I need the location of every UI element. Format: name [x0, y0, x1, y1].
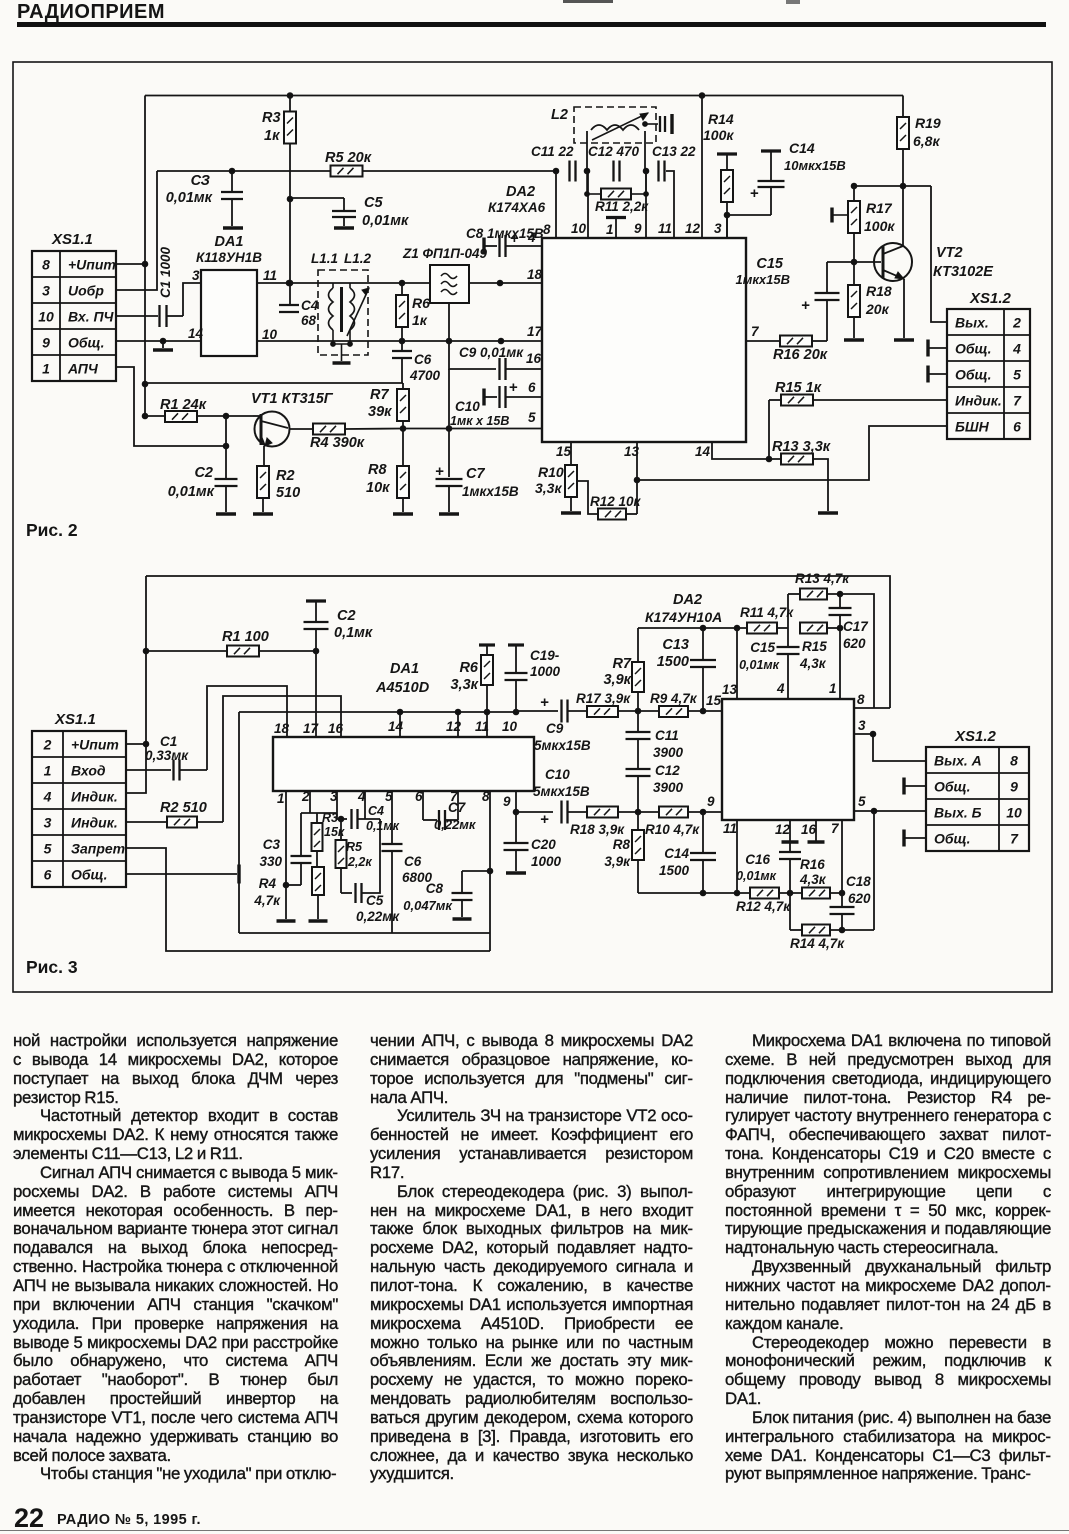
svg-text:L1.2: L1.2: [344, 251, 372, 266]
wire left supply vertical: [126, 576, 146, 793]
wire pin 1: [615, 219, 617, 238]
svg-text:68: 68: [301, 313, 317, 328]
Рис.3 top rail: [146, 576, 890, 708]
svg-text:R12 10к: R12 10к: [590, 494, 642, 509]
svg-text:12: 12: [446, 719, 462, 734]
svg-text:10: 10: [38, 309, 54, 325]
svg-text:3: 3: [858, 718, 866, 733]
svg-text:10: 10: [262, 327, 278, 342]
svg-text:+Uпит: +Uпит: [71, 737, 119, 753]
svg-text:14: 14: [695, 444, 711, 459]
wire +Uпит vertical: [144, 96, 146, 417]
ground near pin 14: [116, 340, 201, 342]
svg-text:Индик.: Индик.: [955, 393, 1002, 409]
capacitor C15: [826, 262, 828, 292]
svg-text:С12 470: С12 470: [588, 144, 640, 159]
resistor R16: [746, 340, 780, 342]
svg-text:С19-: С19-: [530, 648, 560, 663]
svg-text:1: 1: [44, 763, 52, 779]
resistor R1: [145, 415, 165, 417]
svg-text:14: 14: [188, 326, 204, 341]
svg-text:Вход: Вход: [71, 763, 106, 779]
svg-text:R5: R5: [346, 840, 363, 854]
common stub Общ 4: [926, 340, 929, 357]
svg-text:XS1.2: XS1.2: [969, 290, 1012, 307]
svg-text:10мкх15В: 10мкх15В: [784, 158, 846, 173]
wire pin 11 fig3: [736, 820, 738, 893]
svg-text:С5: С5: [366, 893, 384, 908]
svg-text:8: 8: [42, 257, 50, 273]
svg-text:С12: С12: [655, 763, 680, 778]
resistor R14: [717, 152, 737, 155]
svg-text:1000: 1000: [530, 664, 561, 679]
svg-text:Z1 ФП1П-049: Z1 ФП1П-049: [402, 246, 487, 261]
svg-text:БШН: БШН: [955, 419, 990, 435]
ground pin 16 fig3: [815, 820, 817, 841]
resistor R7: [402, 383, 404, 390]
svg-text:1мк х 15В: 1мк х 15В: [450, 414, 509, 428]
svg-text:С2: С2: [194, 465, 213, 481]
svg-text:С8: С8: [426, 881, 444, 896]
svg-text:0,01мк: 0,01мк: [736, 869, 777, 883]
svg-text:Общ.: Общ.: [68, 335, 105, 351]
svg-text:С8 1мкх15В: С8 1мкх15В: [466, 226, 544, 241]
svg-text:С16: С16: [745, 852, 770, 867]
svg-text:14: 14: [388, 719, 404, 734]
svg-text:0,047мк: 0,047мк: [403, 898, 453, 913]
common stub Общ 7 fig3: [902, 830, 905, 847]
svg-text:8: 8: [543, 222, 551, 237]
connector XS1.1: [32, 731, 126, 887]
resistor R15: [769, 399, 781, 401]
svg-text:СЗ: СЗ: [191, 173, 210, 189]
svg-text:Вых.: Вых.: [955, 315, 989, 331]
svg-text:100к: 100к: [703, 127, 734, 143]
svg-text:18: 18: [274, 721, 290, 736]
wire pin 3: [726, 215, 728, 238]
resistor R15 fig3: [800, 623, 827, 634]
svg-text:2: 2: [1012, 315, 1021, 331]
svg-text:12: 12: [685, 221, 701, 236]
svg-text:330: 330: [259, 854, 282, 869]
svg-text:С13: С13: [662, 637, 689, 653]
svg-text:Общ.: Общ.: [955, 367, 992, 383]
svg-text:С7: С7: [448, 800, 467, 815]
wire pin 1 fig3: [839, 628, 841, 699]
svg-text:11: 11: [723, 821, 737, 836]
svg-text:Индик.: Индик.: [71, 789, 118, 805]
svg-text:11: 11: [475, 719, 489, 734]
svg-text:С11: С11: [655, 728, 679, 743]
svg-text:3: 3: [330, 789, 338, 804]
svg-text:1мкх15В: 1мкх15В: [735, 272, 790, 287]
capacitor C5: [290, 197, 344, 199]
svg-text:DA2: DA2: [506, 184, 535, 200]
svg-text:С15: С15: [756, 256, 784, 272]
svg-text:R11 2,2к: R11 2,2к: [595, 199, 649, 214]
svg-text:2,2к: 2,2к: [347, 855, 372, 869]
svg-text:R5 20к: R5 20к: [325, 150, 372, 166]
svg-text:R19: R19: [915, 115, 941, 131]
svg-text:С4: С4: [368, 804, 384, 818]
common stub Общ 5: [926, 366, 929, 383]
svg-text:КТ3102Е: КТ3102Е: [933, 264, 994, 280]
svg-text:С15: С15: [750, 640, 775, 655]
svg-text:R1 24к: R1 24к: [160, 397, 207, 413]
svg-text:15: 15: [556, 444, 572, 459]
svg-text:3: 3: [42, 283, 50, 299]
svg-text:R7: R7: [612, 656, 631, 672]
supply rail pins 14 12 11 10: [239, 711, 516, 713]
svg-text:+Uпит: +Uпит: [68, 257, 116, 273]
svg-text:Вх. ПЧ: Вх. ПЧ: [68, 309, 115, 325]
svg-text:С3: С3: [263, 837, 281, 852]
svg-text:R11 4,7к: R11 4,7к: [740, 605, 794, 620]
resistor R2 fig3: [126, 821, 167, 823]
svg-text:С18: С18: [846, 874, 871, 889]
svg-text:0,01мк: 0,01мк: [166, 190, 213, 206]
svg-text:С14: С14: [789, 140, 815, 156]
svg-text:6,8к: 6,8к: [913, 133, 940, 149]
wire pin 17 fig3: [315, 651, 317, 737]
svg-text:4: 4: [357, 789, 366, 804]
svg-text:3,9к: 3,9к: [603, 672, 631, 688]
wire pin 16 fig3: [223, 696, 341, 822]
svg-text:20к: 20к: [865, 301, 890, 317]
capacitor C13 fig3: [702, 628, 704, 659]
svg-text:L1.1: L1.1: [311, 251, 338, 266]
svg-text:7: 7: [751, 324, 760, 339]
svg-text:Вых. Б: Вых. Б: [934, 805, 982, 821]
wire Запрет fig3: [126, 848, 490, 951]
svg-text:R2: R2: [276, 468, 295, 484]
common stub Общ fig3: [126, 873, 237, 875]
svg-text:10: 10: [1006, 805, 1022, 821]
svg-text:16: 16: [526, 351, 542, 366]
svg-text:С11 22: С11 22: [531, 144, 574, 159]
capacitor C10: [482, 389, 485, 406]
svg-text:18: 18: [527, 267, 543, 282]
svg-text:3,3к: 3,3к: [535, 480, 562, 496]
svg-text:R16 20к: R16 20к: [773, 347, 828, 363]
svg-text:XS1.1: XS1.1: [54, 711, 96, 728]
svg-text:С7: С7: [466, 466, 485, 482]
svg-text:9: 9: [42, 335, 50, 351]
capacitor C15 fig3: [787, 628, 789, 646]
wire pin 7 fig3: [841, 820, 843, 893]
capacitors C11 C12 fig3: [637, 711, 639, 731]
svg-text:Вых. А: Вых. А: [934, 753, 982, 769]
svg-text:R3: R3: [262, 110, 281, 126]
svg-text:11: 11: [658, 221, 672, 236]
svg-text:39к: 39к: [368, 404, 392, 420]
resistor R13: [712, 442, 781, 459]
svg-text:R6: R6: [459, 660, 478, 676]
svg-text:С14: С14: [664, 846, 689, 861]
svg-text:100к: 100к: [864, 218, 895, 234]
svg-text:9: 9: [1010, 779, 1018, 795]
capacitor C2: [225, 446, 227, 479]
svg-text:+: +: [750, 185, 759, 202]
svg-text:0,1мк: 0,1мк: [366, 819, 400, 833]
svg-text:Рис. 3: Рис. 3: [26, 957, 78, 977]
IC DA2 К174ХА6: [542, 238, 746, 442]
svg-text:+: +: [540, 811, 549, 828]
svg-text:4,7к: 4,7к: [253, 893, 281, 908]
svg-text:1: 1: [277, 791, 285, 806]
svg-text:6: 6: [44, 867, 52, 883]
wire +Uпит row: [116, 263, 145, 265]
IC DA1 A4510D: [273, 737, 534, 791]
svg-text:1000: 1000: [531, 854, 562, 869]
svg-text:Общ.: Общ.: [934, 779, 971, 795]
resistor R6 fig3: [479, 643, 495, 646]
svg-text:R8: R8: [368, 462, 387, 478]
svg-text:3900: 3900: [653, 780, 684, 795]
svg-text:0,01мк: 0,01мк: [362, 213, 409, 229]
svg-text:1: 1: [606, 222, 614, 237]
wire reference rail: [157, 170, 556, 172]
svg-text:R6: R6: [412, 295, 430, 311]
svg-text:R4: R4: [259, 876, 277, 891]
svg-text:4,3к: 4,3к: [799, 872, 827, 887]
resistor R11 fig3: [747, 623, 777, 634]
svg-text:VT1 КТ315Г: VT1 КТ315Г: [251, 391, 334, 407]
svg-text:Uобр: Uобр: [68, 283, 104, 299]
svg-text:VT2: VT2: [936, 245, 963, 261]
svg-text:4: 4: [43, 789, 52, 805]
svg-text:5: 5: [385, 789, 393, 804]
svg-text:620: 620: [843, 636, 866, 651]
svg-text:1: 1: [829, 681, 837, 696]
svg-text:9: 9: [707, 794, 715, 809]
resistor R11: [586, 171, 588, 194]
svg-text:+: +: [509, 379, 518, 396]
svg-text:С6: С6: [414, 352, 432, 367]
wire pin 8 fig3: [854, 707, 890, 709]
svg-text:R18 3,9к: R18 3,9к: [570, 822, 625, 837]
svg-text:R7: R7: [370, 387, 389, 403]
svg-text:0,01мк: 0,01мк: [739, 658, 780, 672]
svg-text:АПЧ: АПЧ: [67, 361, 99, 377]
schematic frame: [13, 62, 1052, 992]
svg-text:11: 11: [263, 268, 277, 283]
svg-text:16: 16: [801, 822, 817, 837]
svg-text:R15: R15: [802, 639, 827, 654]
resistor R2: [263, 446, 265, 466]
wire detector output: [403, 428, 542, 430]
svg-text:7: 7: [1010, 831, 1019, 847]
svg-text:С1 1000: С1 1000: [158, 246, 173, 298]
trimmer cap near L2: [643, 122, 648, 127]
svg-text:R10: R10: [538, 464, 564, 480]
svg-text:L2: L2: [551, 107, 568, 123]
svg-text:8: 8: [482, 789, 490, 804]
capacitor C1 fig3: [126, 769, 171, 771]
svg-text:DA1: DA1: [390, 661, 419, 677]
svg-text:10: 10: [571, 221, 587, 236]
svg-text:С13 22: С13 22: [652, 144, 696, 159]
svg-text:6: 6: [528, 380, 536, 395]
wire pin 9 chain fig3: [515, 791, 517, 812]
ground pin 12 fig3: [789, 820, 791, 841]
resistor R1 fig3: [146, 650, 228, 652]
connector XS1.2: [947, 309, 1030, 439]
svg-text:R10 4,7к: R10 4,7к: [645, 822, 700, 837]
capacitor C6: [401, 341, 403, 351]
quartz filter Z1 ФП1П-049: [430, 265, 469, 303]
svg-text:С5: С5: [364, 195, 383, 211]
resistor R6: [401, 283, 403, 294]
Рис.2 top supply rail: [145, 95, 903, 97]
resistor R3: [289, 96, 291, 306]
svg-text:2: 2: [301, 789, 310, 804]
wire pin 11: [666, 171, 674, 238]
svg-text:1к: 1к: [412, 312, 428, 328]
svg-text:A4510D: A4510D: [375, 680, 430, 696]
capacitor C11: [568, 161, 570, 182]
svg-text:С17: С17: [843, 619, 869, 634]
resistor R8: [402, 429, 404, 468]
connector XS1.1: [32, 251, 116, 381]
svg-text:+: +: [540, 694, 549, 711]
svg-text:Общ.: Общ.: [71, 867, 108, 883]
wire pin 9: [645, 171, 647, 238]
svg-text:4700: 4700: [409, 368, 441, 383]
svg-text:R1 100: R1 100: [222, 629, 269, 645]
wire pin 10: [587, 171, 589, 238]
svg-text:R13 4,7к: R13 4,7к: [795, 571, 850, 586]
svg-text:16: 16: [328, 721, 344, 736]
svg-text:9: 9: [634, 221, 642, 236]
IC DA2 К174УН10А: [722, 699, 854, 820]
resistor R18 fig3: [587, 807, 618, 818]
svg-text:510: 510: [276, 485, 300, 501]
svg-text:5мкх15В: 5мкх15В: [534, 738, 591, 753]
svg-text:1: 1: [42, 361, 50, 377]
resistor R19: [902, 96, 904, 118]
svg-text:17: 17: [303, 721, 320, 736]
svg-text:С10: С10: [545, 767, 570, 782]
wire IF rail pin 17: [257, 340, 542, 342]
svg-text:R13 3,3к: R13 3,3к: [772, 439, 831, 455]
wire +Uпит fig3: [126, 743, 146, 745]
svg-text:Запрет: Запрет: [71, 841, 125, 857]
svg-text:DA2: DA2: [673, 592, 702, 608]
svg-text:5: 5: [44, 841, 52, 857]
wire pin 3 fig3: [854, 734, 926, 761]
wire pin 12: [701, 96, 703, 239]
resistor R14 fig3: [789, 893, 791, 930]
svg-text:2: 2: [43, 737, 52, 753]
svg-text:13: 13: [624, 444, 640, 459]
svg-text:R9 4,7к: R9 4,7к: [650, 691, 698, 706]
svg-text:8: 8: [1010, 753, 1018, 769]
svg-text:3: 3: [714, 221, 722, 236]
svg-text:7: 7: [1013, 393, 1022, 409]
svg-text:R12 4,7к: R12 4,7к: [736, 899, 791, 914]
svg-text:С1: С1: [160, 734, 177, 749]
resistor R16 fig3: [802, 888, 830, 899]
resistor R13 fig3: [787, 594, 789, 628]
svg-text:R17: R17: [866, 200, 893, 216]
resistor R10: [570, 442, 572, 466]
svg-text:С20: С20: [531, 837, 556, 852]
capacitor C3: [231, 171, 233, 192]
svg-text:С10: С10: [455, 399, 480, 414]
capacitor C2 fig3: [306, 599, 326, 602]
svg-text:3: 3: [44, 815, 52, 831]
resistor R17 fig3: [587, 706, 618, 717]
wire pin 13 fig3: [736, 628, 738, 699]
svg-text:4: 4: [1012, 341, 1021, 357]
wire БШН: [637, 426, 947, 480]
svg-text:DA1: DA1: [214, 234, 243, 250]
resistor R18: [853, 262, 855, 286]
wire pin 5 fig3: [854, 810, 926, 812]
svg-text:R4 390к: R4 390к: [310, 435, 365, 451]
resistor R5: [331, 166, 363, 177]
wire base VT2: [827, 261, 881, 263]
svg-text:5: 5: [1013, 367, 1021, 383]
capacitor C4: [279, 304, 299, 306]
resistor R9 fig3: [638, 710, 659, 712]
svg-text:5мкх15В: 5мкх15В: [533, 784, 590, 799]
svg-text:+: +: [435, 463, 444, 480]
capacitor C16 fig3: [789, 843, 791, 851]
op-amp DA1 K118УН1В: [201, 270, 257, 356]
svg-text:0,22мк: 0,22мк: [434, 817, 477, 832]
svg-text:7: 7: [831, 821, 840, 836]
svg-text:12: 12: [775, 822, 791, 837]
resistor R4: [289, 428, 313, 430]
inductor L2: [574, 107, 656, 143]
wire pin 8 DA1 bottom: [489, 871, 491, 951]
capacitor C9 fig3: [516, 710, 558, 712]
svg-text:0,33мк: 0,33мк: [145, 748, 189, 763]
transformer L1.1 L1.2: [318, 270, 368, 355]
svg-text:4: 4: [776, 681, 785, 696]
svg-text:6: 6: [1013, 419, 1021, 435]
capacitor C14: [761, 149, 781, 152]
common stub Общ 9 fig3: [902, 778, 905, 795]
svg-text:Общ.: Общ.: [955, 341, 992, 357]
svg-text:1мкх15В: 1мкх15В: [462, 484, 519, 499]
wire node pin 13 fig3: [638, 627, 747, 629]
capacitor C1: [116, 315, 158, 317]
capacitor C18 fig3: [841, 893, 843, 906]
svg-text:R15 1к: R15 1к: [775, 380, 822, 396]
svg-text:5: 5: [528, 410, 536, 425]
capacitor C17 fig3: [839, 594, 841, 607]
svg-text:1500: 1500: [659, 863, 690, 878]
svg-text:С6: С6: [404, 854, 422, 869]
svg-text:0,22мк: 0,22мк: [356, 909, 400, 924]
svg-text:С9: С9: [546, 721, 564, 736]
svg-text:10: 10: [502, 719, 518, 734]
svg-text:R18: R18: [866, 283, 892, 299]
svg-text:620: 620: [848, 891, 871, 906]
svg-text:1500: 1500: [657, 654, 689, 670]
svg-text:XS1.1: XS1.1: [51, 231, 93, 248]
wire АПЧ branch: [145, 382, 403, 384]
svg-text:Общ.: Общ.: [934, 831, 971, 847]
svg-text:Индик.: Индик.: [71, 815, 118, 831]
svg-text:6: 6: [415, 789, 423, 804]
svg-text:С4: С4: [301, 298, 319, 313]
svg-text:К174УН10А: К174УН10А: [645, 609, 722, 625]
wire pin 11 to Z1: [257, 282, 430, 284]
